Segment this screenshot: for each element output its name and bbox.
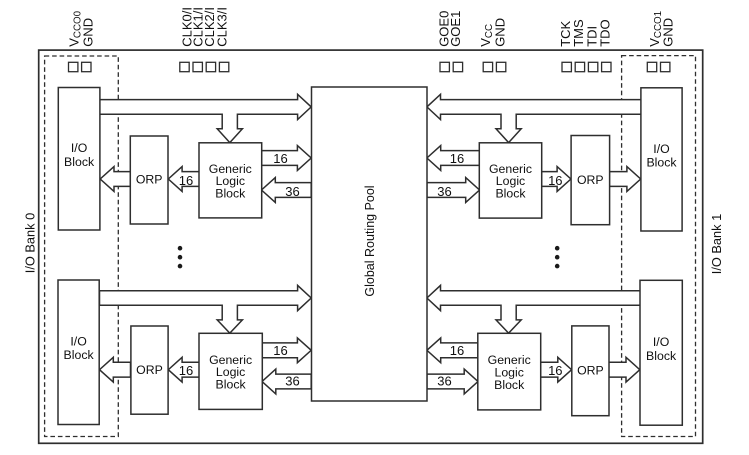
svg-text:Block: Block [646, 349, 677, 363]
arrow lower-left ORP-to-I/O [100, 357, 131, 382]
continuation dots left [178, 246, 183, 269]
svg-text:36: 36 [437, 184, 451, 199]
outer device boundary [39, 50, 703, 443]
block I/O upper-right [641, 88, 682, 231]
arrow 16 upper-right GLB-to-ORP [542, 167, 571, 192]
svg-text:I/O Bank 1: I/O Bank 1 [709, 214, 724, 274]
svg-text:Block: Block [64, 348, 95, 362]
pin TCK [562, 62, 571, 71]
block ORP upper-left [130, 136, 168, 224]
arrow upper-right ORP-to-I/O [609, 167, 640, 192]
block GLB lower-left [199, 333, 262, 409]
arrow 36 lower-right GRP-to-GLB [427, 369, 478, 394]
svg-text:I/O: I/O [70, 334, 86, 348]
bus upper-left I/O-to-GRP with branch to GLB [100, 94, 312, 142]
svg-text:16: 16 [273, 151, 287, 166]
arrow 16 lower-right GLB-to-GRP [427, 338, 478, 363]
svg-text:36: 36 [285, 184, 299, 199]
bus upper-right I/O-to-GRP with branch to GLB [427, 94, 642, 142]
bus lower-left I/O-to-GRP with branch to GLB [100, 285, 312, 333]
svg-text:I/O: I/O [71, 141, 87, 155]
svg-text:16: 16 [548, 363, 562, 378]
svg-text:Global Routing Pool: Global Routing Pool [363, 185, 377, 296]
pin CLK0/I [180, 62, 189, 71]
block ORP lower-left [131, 326, 168, 414]
pin GND right [661, 62, 670, 71]
block I/O lower-left [58, 280, 99, 425]
arrow 16 upper-left GLB-to-GRP [262, 146, 312, 171]
block I/O upper-left [58, 88, 100, 231]
pin GOE1 [453, 62, 462, 71]
pin TDO [602, 62, 611, 71]
pin CLK1/I [193, 62, 202, 71]
svg-text:ORP: ORP [136, 363, 163, 377]
arrow 16 upper-right GLB-to-GRP [427, 146, 480, 171]
arrow upper-left ORP-to-I/O [100, 167, 130, 192]
arrow 16 upper-left GLB-to-ORP [168, 167, 199, 192]
svg-text:16: 16 [179, 173, 193, 188]
pin GOE0 [440, 62, 449, 71]
arrow 36 lower-left GRP-to-GLB [262, 369, 311, 394]
svg-text:ORP: ORP [577, 364, 604, 378]
pin GND left [82, 62, 91, 71]
svg-text:Block: Block [64, 155, 95, 169]
svg-text:ORP: ORP [577, 173, 604, 187]
svg-text:16: 16 [450, 151, 464, 166]
arrow 16 lower-left GLB-to-GRP [262, 338, 311, 363]
svg-text:I/O Bank 0: I/O Bank 0 [22, 213, 37, 273]
svg-text:I/O: I/O [653, 335, 669, 349]
arrow 36 upper-left GRP-to-GLB [262, 178, 312, 203]
block GLB lower-right [478, 333, 541, 410]
svg-text:36: 36 [285, 373, 299, 388]
pin VCCO0 [69, 62, 78, 71]
arrow 36 upper-right GRP-to-GLB [427, 178, 480, 203]
svg-text:ORP: ORP [136, 173, 163, 187]
block I/O lower-right [640, 280, 682, 425]
block ORP lower-right [572, 326, 609, 416]
continuation dots right [555, 246, 560, 269]
I/O Bank 1 dashed region [622, 56, 696, 437]
bus lower-right I/O-to-GRP with branch to GLB [427, 285, 642, 333]
block ORP upper-right [571, 136, 610, 225]
svg-text:GOE1: GOE1 [448, 11, 463, 47]
pin TDI [588, 62, 597, 71]
block GLB upper-right [479, 143, 541, 218]
svg-text:GND: GND [80, 18, 95, 47]
pin CLK2/I [206, 62, 215, 71]
block Global Routing Pool [312, 87, 428, 401]
pin VCCO1 [647, 62, 656, 71]
svg-text:I/O: I/O [653, 142, 669, 156]
svg-text:Block: Block [215, 187, 246, 201]
arrow lower-right ORP-to-I/O [609, 357, 640, 382]
svg-text:GND: GND [661, 18, 676, 47]
svg-text:16: 16 [273, 343, 287, 358]
pin VCC [483, 62, 492, 71]
pin GND center [496, 62, 505, 71]
svg-text:16: 16 [548, 173, 562, 188]
svg-text:TDO: TDO [598, 19, 613, 46]
svg-text:16: 16 [179, 363, 193, 378]
svg-text:16: 16 [450, 343, 464, 358]
svg-text:CLK3/I: CLK3/I [214, 7, 229, 47]
pin CLK3/I [219, 62, 228, 71]
arrow 16 lower-right GLB-to-ORP [541, 357, 572, 382]
svg-text:36: 36 [437, 373, 451, 388]
pin TMS [575, 62, 584, 71]
svg-text:GND: GND [493, 18, 508, 47]
block GLB upper-left [199, 143, 262, 218]
svg-text:Block: Block [494, 378, 525, 392]
I/O Bank 0 dashed region [45, 56, 119, 437]
svg-text:Block: Block [646, 155, 677, 169]
arrow 16 lower-left GLB-to-ORP [168, 357, 199, 382]
svg-text:Block: Block [216, 378, 247, 392]
svg-text:Block: Block [495, 187, 526, 201]
